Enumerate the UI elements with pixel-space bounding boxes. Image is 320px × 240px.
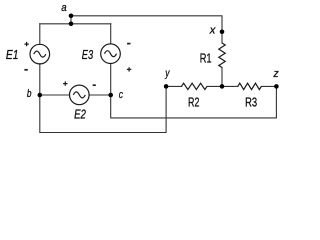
svg-text:E2: E2 <box>74 107 86 122</box>
svg-text:E3: E3 <box>82 47 94 62</box>
svg-text:b: b <box>27 88 32 100</box>
svg-text:a: a <box>61 2 66 14</box>
svg-text:R2: R2 <box>188 95 199 109</box>
svg-text:R1: R1 <box>200 51 212 65</box>
svg-text:c: c <box>119 89 123 101</box>
svg-text:R3: R3 <box>245 95 257 109</box>
svg-text:E1: E1 <box>6 47 19 62</box>
svg-text:z: z <box>273 68 279 80</box>
svg-text:x: x <box>209 24 216 36</box>
